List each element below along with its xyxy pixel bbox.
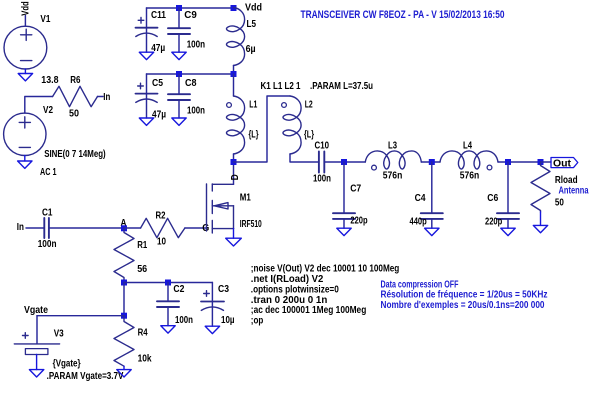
svg-text:SINE(0 7 14Meg): SINE(0 7 14Meg) bbox=[44, 149, 106, 160]
wire junction to transformer link bbox=[234, 96, 291, 162]
resistor R6 bbox=[53, 86, 98, 106]
phase dot L1 bbox=[227, 103, 232, 108]
svg-text:C9: C9 bbox=[184, 10, 197, 21]
svg-text:50: 50 bbox=[69, 109, 79, 120]
svg-text:C11: C11 bbox=[151, 10, 166, 21]
junction at Vgate node bbox=[121, 313, 127, 319]
svg-text:47µ: 47µ bbox=[152, 110, 166, 121]
wire L5 bottom stub bbox=[233, 66, 235, 75]
wire C7 stubs bbox=[343, 162, 345, 228]
svg-text:100n: 100n bbox=[187, 105, 205, 116]
svg-text:In: In bbox=[17, 222, 24, 233]
capacitor C4 bbox=[421, 213, 443, 219]
wire C1 to node A bbox=[49, 227, 124, 229]
wire C11 stubs bbox=[146, 8, 148, 52]
svg-text:Vdd: Vdd bbox=[245, 3, 262, 14]
voltage source V3 (battery) bbox=[14, 333, 59, 355]
voltage source V2 bbox=[4, 113, 46, 155]
wire Vgate horizontal bbox=[37, 315, 124, 317]
junction at C7 top bbox=[341, 159, 347, 165]
junction below R1 bbox=[121, 280, 127, 286]
ground below V2 bbox=[18, 156, 32, 169]
svg-text:.net I(RLoad) V2: .net I(RLoad) V2 bbox=[251, 274, 324, 285]
wire second rail bbox=[147, 73, 234, 75]
junction at C8 top bbox=[176, 71, 182, 77]
inductor L1 bbox=[226, 96, 244, 154]
junction at Rload top bbox=[538, 159, 544, 165]
svg-text:R1: R1 bbox=[137, 240, 147, 251]
svg-text:R4: R4 bbox=[138, 328, 148, 339]
wire L3 to C4 junction bbox=[421, 161, 440, 163]
svg-text:AC 1: AC 1 bbox=[40, 167, 57, 178]
svg-text:;ac dec 100001 1Meg 100Meg: ;ac dec 100001 1Meg 100Meg bbox=[251, 305, 366, 316]
svg-text:In: In bbox=[103, 92, 110, 103]
capacitor C1 bbox=[44, 218, 49, 238]
wire R1 bottom row bbox=[124, 282, 212, 284]
inductor L3 bbox=[365, 151, 421, 169]
svg-text:C10: C10 bbox=[315, 141, 330, 152]
svg-text:C4: C4 bbox=[415, 193, 426, 204]
wire C3 stub down bbox=[211, 302, 213, 326]
svg-text:6µ: 6µ bbox=[246, 44, 256, 55]
phase dot L4 bbox=[487, 165, 492, 170]
transistor M1 bbox=[207, 184, 234, 233]
wire L2 bottom to C10 bbox=[290, 154, 319, 162]
svg-text:220p: 220p bbox=[350, 216, 367, 227]
wire Vgate down to V3 bbox=[36, 316, 38, 344]
ground below C8 bbox=[172, 118, 186, 125]
capacitor C5 polarized bbox=[136, 83, 158, 102]
capacitor C3 polarized bbox=[201, 291, 224, 311]
wire L4 to C6 junction bbox=[498, 161, 541, 163]
junction at C6 top bbox=[505, 159, 511, 165]
wire V2 to R6 bbox=[25, 97, 53, 114]
junction at L1 bottom / drain bbox=[231, 159, 237, 165]
wire junction to Out port bbox=[541, 161, 552, 163]
svg-text:Out: Out bbox=[553, 159, 572, 170]
svg-text:IRF510: IRF510 bbox=[240, 219, 262, 230]
ground below C11 bbox=[139, 52, 153, 59]
svg-text:10: 10 bbox=[157, 237, 166, 248]
svg-text:Nombre d'exemples = 20us/0.1ns: Nombre d'exemples = 20us/0.1ns=200 000 bbox=[381, 300, 545, 311]
svg-text:{L}: {L} bbox=[249, 130, 259, 141]
ground below C6 bbox=[501, 228, 515, 235]
inductor L2 bbox=[283, 96, 301, 154]
junction at node A bbox=[121, 225, 127, 231]
wire C5 stubs bbox=[146, 74, 148, 118]
resistor R4 bbox=[114, 316, 134, 367]
capacitor C7 bbox=[333, 213, 355, 219]
svg-text:;noise V(Out) V2 dec 10001 10: ;noise V(Out) V2 dec 10001 10 100Meg bbox=[251, 264, 399, 275]
svg-text:D: D bbox=[230, 174, 241, 180]
svg-text:.PARAM L=37.5u: .PARAM L=37.5u bbox=[310, 81, 373, 92]
ground below Rload bbox=[533, 212, 547, 233]
svg-text:C8: C8 bbox=[185, 78, 197, 89]
voltage source V1 bbox=[4, 26, 47, 69]
inductor L4 bbox=[440, 151, 498, 169]
capacitor C11 polarized bbox=[136, 18, 158, 37]
wire drain up bbox=[233, 162, 235, 184]
svg-text:L5: L5 bbox=[247, 19, 257, 30]
svg-text:100n: 100n bbox=[175, 315, 193, 326]
svg-text:{Vgate}: {Vgate} bbox=[53, 359, 81, 370]
wire C6 stubs bbox=[507, 162, 509, 228]
svg-text:Vdd: Vdd bbox=[20, 1, 31, 15]
junction at Vdd corner bbox=[231, 5, 237, 11]
wire R2 to gate bbox=[185, 227, 207, 229]
svg-text:L2: L2 bbox=[305, 100, 313, 111]
resistor R2 bbox=[141, 218, 185, 237]
svg-text:576n: 576n bbox=[383, 170, 403, 181]
ground below C5 bbox=[139, 118, 153, 125]
svg-text:L3: L3 bbox=[388, 140, 397, 151]
svg-text:V2: V2 bbox=[43, 105, 53, 116]
capacitor C8 bbox=[168, 94, 190, 100]
junction at C9 top bbox=[176, 5, 182, 11]
wire C10 to junction bbox=[324, 161, 365, 163]
wire C9 stubs bbox=[178, 8, 180, 52]
ground below C4 bbox=[425, 228, 439, 235]
svg-text:C1: C1 bbox=[42, 208, 53, 219]
phase dot L3 bbox=[372, 165, 377, 170]
svg-text:56: 56 bbox=[137, 264, 147, 275]
ground below V1 bbox=[18, 69, 32, 81]
svg-text:V1: V1 bbox=[40, 14, 50, 25]
ground below C3 bbox=[205, 326, 219, 333]
ground below C2 bbox=[161, 326, 175, 333]
svg-text:{L}: {L} bbox=[304, 130, 314, 141]
ground below C7 bbox=[337, 228, 351, 235]
svg-text:.options plotwinsize=0: .options plotwinsize=0 bbox=[251, 284, 339, 295]
svg-text:13.8: 13.8 bbox=[41, 75, 58, 86]
svg-text:;op: ;op bbox=[251, 316, 263, 327]
ground below R4 bbox=[117, 366, 131, 377]
ground below M1 source bbox=[226, 229, 242, 246]
svg-text:.tran 0 200u 0 1n: .tran 0 200u 0 1n bbox=[251, 295, 327, 306]
resistor R1 bbox=[114, 228, 134, 280]
wire C4 stubs bbox=[431, 162, 433, 228]
wire C8 stubs bbox=[178, 74, 180, 118]
svg-text:V3: V3 bbox=[54, 329, 64, 340]
wire R6 to In bbox=[98, 96, 104, 98]
svg-text:C5: C5 bbox=[152, 78, 163, 89]
svg-text:440p: 440p bbox=[410, 216, 427, 227]
capacitor C9 bbox=[168, 28, 190, 34]
svg-text:100n: 100n bbox=[313, 174, 331, 185]
svg-text:C3: C3 bbox=[218, 284, 229, 295]
svg-text:R2: R2 bbox=[156, 211, 166, 222]
svg-text:Rload: Rload bbox=[555, 175, 578, 186]
wire C2 stubs bbox=[167, 283, 169, 326]
capacitor C6 bbox=[497, 213, 519, 219]
capacitor C10 bbox=[319, 152, 324, 173]
inductor L5 bbox=[226, 8, 244, 66]
phase dot L2 bbox=[282, 103, 287, 108]
svg-text:C7: C7 bbox=[350, 184, 361, 195]
junction at L5 bottom bbox=[231, 71, 237, 77]
svg-text:10µ: 10µ bbox=[221, 315, 235, 326]
svg-text:K1 L1 L2 1: K1 L1 L2 1 bbox=[261, 81, 301, 92]
svg-text:Antenna: Antenna bbox=[559, 186, 589, 197]
svg-text:L4: L4 bbox=[463, 140, 472, 151]
port Out bbox=[551, 158, 578, 170]
wire Vdd stub above V1 bbox=[24, 16, 26, 27]
ground below C9 bbox=[172, 52, 186, 59]
svg-text:C2: C2 bbox=[173, 284, 184, 295]
svg-text:220p: 220p bbox=[485, 216, 502, 227]
svg-text:100n: 100n bbox=[187, 40, 205, 51]
svg-text:10k: 10k bbox=[138, 354, 152, 365]
svg-text:100n: 100n bbox=[38, 239, 57, 250]
capacitor C2 bbox=[157, 301, 179, 307]
wire corner down to C3 bbox=[211, 283, 213, 302]
svg-text:C6: C6 bbox=[487, 193, 498, 204]
wire R1 junction down to Vgate junction bbox=[123, 283, 125, 316]
svg-text:576n: 576n bbox=[460, 170, 480, 181]
wire L5 junction to L1 bbox=[233, 74, 235, 96]
wire L1 bottom to junction bbox=[233, 154, 235, 162]
wire In to C1 bbox=[26, 227, 44, 229]
wire A to R2 bbox=[124, 227, 141, 229]
svg-text:R6: R6 bbox=[70, 75, 80, 86]
svg-text:50: 50 bbox=[555, 198, 564, 209]
junction at C4 top bbox=[429, 159, 435, 165]
wire top Vdd rail bbox=[147, 7, 234, 9]
svg-text:TRANSCEIVER CW F8EOZ - PA - V: TRANSCEIVER CW F8EOZ - PA - V 15/02/2013… bbox=[301, 9, 505, 21]
ground below V3 bbox=[29, 355, 43, 378]
svg-text:L1: L1 bbox=[249, 100, 257, 111]
svg-text:.PARAM Vgate=3.7V: .PARAM Vgate=3.7V bbox=[47, 371, 124, 382]
svg-text:M1: M1 bbox=[240, 193, 251, 204]
svg-text:Vgate: Vgate bbox=[24, 305, 48, 316]
resistor Rload bbox=[531, 162, 550, 212]
junction at C2 bbox=[165, 280, 171, 286]
